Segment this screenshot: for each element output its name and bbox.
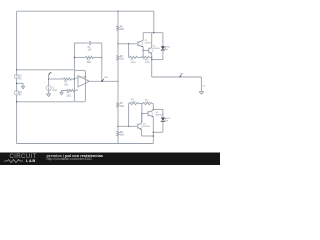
transistor Q2 — [149, 48, 154, 53]
svg-text:2N3904: 2N3904 — [143, 126, 151, 128]
LED D2 — [161, 118, 165, 121]
wire V1 to V2 — [16, 79, 18, 91]
wire feedback left vertical — [73, 43, 75, 70]
resistor R7 — [117, 103, 119, 108]
junction base wire bottom — [117, 126, 118, 127]
resistor R10 — [141, 56, 149, 58]
wire I1 to ground — [48, 91, 50, 94]
wire row lead left — [128, 56, 131, 58]
resistor R12 — [143, 103, 153, 105]
resistor R3 — [67, 89, 75, 91]
capacitor C1 — [89, 41, 90, 45]
node junction left-gnd — [16, 83, 17, 84]
wire ground stub horizontal — [17, 83, 23, 86]
svg-text:I1: I1 — [52, 87, 55, 89]
svg-text:1kΩ: 1kΩ — [120, 29, 124, 31]
svg-text:V1: V1 — [19, 76, 23, 78]
resistor R11 — [129, 103, 138, 105]
svg-text:5V: 5V — [19, 78, 22, 80]
svg-text:in: in — [50, 73, 53, 75]
node flag return net — [180, 74, 182, 77]
svg-text:1uF: 1uF — [88, 50, 93, 52]
svg-text:0V: 0V — [202, 85, 205, 87]
junction LED2 return — [153, 132, 154, 133]
wire return to ground run — [152, 76, 202, 78]
wire emitter return drop — [151, 60, 153, 77]
junction output feedback — [101, 81, 102, 82]
svg-text:V2: V2 — [19, 92, 23, 94]
voltage source V2 — [14, 91, 18, 95]
wire left rail lower — [16, 95, 18, 144]
wire Q2 collector — [151, 33, 153, 47]
svg-text:1kΩ: 1kΩ — [64, 84, 68, 86]
watermark bar — [0, 152, 220, 166]
junction left divider top — [128, 43, 129, 44]
svg-text:C1: C1 — [88, 47, 92, 49]
svg-text:2N3904: 2N3904 — [153, 48, 161, 50]
junction Q3 base — [141, 113, 142, 114]
svg-text:220Ω: 220Ω — [131, 62, 136, 64]
op-amp input pins — [74, 78, 78, 91]
voltage source V1 — [14, 74, 18, 78]
wire left rail upper — [16, 11, 18, 74]
node flag OUT — [102, 79, 104, 82]
svg-text:1kΩ: 1kΩ — [87, 62, 91, 64]
junction feedback left — [74, 57, 75, 58]
wire mid divider drop — [141, 104, 143, 123]
current source I1 — [46, 86, 51, 91]
node flag IN — [49, 72, 51, 75]
junction bias rail bottom — [117, 143, 118, 144]
wire LED1 return — [152, 59, 163, 61]
svg-text:220Ω: 220Ω — [145, 62, 150, 64]
wire Q2 base — [143, 49, 149, 51]
transistor Q1 — [138, 41, 143, 46]
resistor R5 — [117, 26, 119, 31]
LED D1 — [161, 46, 165, 49]
svg-text:1kΩ: 1kΩ — [120, 106, 124, 108]
svg-text:1mA: 1mA — [52, 89, 57, 92]
svg-text:5V: 5V — [19, 95, 22, 97]
resistor R2 — [86, 56, 94, 58]
wire supply drop — [153, 11, 155, 33]
wire left divider rise — [128, 104, 130, 127]
svg-text:R1: R1 — [64, 82, 68, 84]
wire R3 to ground — [61, 91, 63, 93]
junction base wire top — [117, 43, 118, 44]
svg-text:1kΩ: 1kΩ — [67, 95, 71, 97]
wire row2 lead right — [152, 103, 153, 105]
wire Q3 emitter drop — [152, 117, 154, 144]
svg-text:R7: R7 — [120, 103, 124, 105]
svg-text:vee: vee — [180, 73, 184, 75]
junction LED2 branch — [153, 109, 154, 110]
wire bias rail seg4 — [117, 107, 119, 131]
wire row2 lead left — [128, 103, 131, 105]
wire R3 branch — [62, 90, 67, 92]
junction left divider bottom — [128, 126, 129, 127]
wire top rail — [17, 10, 154, 12]
ground near V1/V2 — [21, 86, 25, 89]
junction inverting input — [74, 78, 75, 79]
ground below R3 — [60, 92, 64, 95]
wire Q3 collector rise — [152, 104, 154, 111]
wire bias rail seg5 — [117, 136, 119, 144]
svg-text:R2: R2 — [87, 59, 91, 61]
svg-text:1kΩ: 1kΩ — [120, 135, 124, 137]
svg-text:220Ω: 220Ω — [131, 102, 136, 104]
wire bias rail seg2 — [117, 31, 119, 56]
junction bias rail top — [117, 11, 118, 12]
wire Q4 base — [118, 125, 138, 127]
wire LED1 anode drop — [162, 33, 164, 46]
svg-text:2N3904: 2N3904 — [155, 115, 163, 117]
wire flag to source I1 — [48, 75, 50, 86]
wire A inverting feed — [17, 69, 75, 71]
junction input wire — [48, 78, 49, 79]
wire capacitor branch right — [91, 42, 102, 44]
svg-text:OA1: OA1 — [82, 76, 87, 79]
wire left divider drop — [128, 44, 130, 58]
transistor Q3 — [148, 111, 153, 116]
wire Q1 emitter drop — [142, 47, 144, 57]
wire R1 to opamp — [72, 78, 75, 80]
wire feedback right vertical — [101, 43, 103, 81]
wire R2 branch left — [74, 56, 85, 58]
wire common return to op-amp box — [17, 101, 75, 103]
op-amp U1 body box — [74, 70, 85, 102]
wire row lead right — [149, 56, 151, 58]
svg-text:R3: R3 — [67, 93, 71, 95]
logo resistor zigzag — [4, 160, 23, 163]
wire row lead mid — [137, 56, 141, 58]
junction output to rail — [117, 81, 118, 82]
junction rail common return — [16, 101, 17, 102]
wire Q4 collector rise — [141, 113, 143, 122]
wire collector rail top block — [143, 32, 163, 34]
op-amp U1 triangle — [78, 76, 89, 87]
wire return drop right — [200, 77, 202, 92]
wire Q1 base — [118, 43, 138, 45]
wire Q1 collector — [142, 33, 144, 41]
resistor R6 — [117, 55, 119, 60]
caption line 2 — [47, 158, 93, 162]
wire op-amp output — [89, 80, 118, 82]
wire LED2 anode drop — [162, 109, 164, 117]
wire Q4 emitter hook — [142, 135, 154, 137]
svg-text:out: out — [104, 76, 108, 79]
svg-text:220Ω: 220Ω — [145, 102, 150, 104]
ground below I1 — [46, 94, 50, 97]
junction Q2 base — [143, 50, 144, 51]
wire LED1 cathode drop — [162, 50, 164, 60]
resistor R8 — [117, 131, 119, 136]
wire Q4 emitter drop — [141, 130, 143, 136]
wire Q2 emitter drop — [151, 54, 153, 60]
junction hook — [153, 135, 154, 136]
wire LED2 cathode drop — [162, 121, 164, 132]
ground return — [199, 92, 204, 95]
wire bias rail seg3 — [117, 60, 119, 102]
wire capacitor branch left — [74, 42, 88, 44]
wire Q3 base — [142, 112, 148, 114]
node junction left-A — [16, 69, 17, 70]
transistor Q4 — [138, 124, 143, 129]
resistor R9 — [130, 56, 138, 58]
resistor R1 — [64, 78, 72, 80]
CircuitLab logo — [9, 154, 36, 160]
caption line 1 — [47, 154, 103, 158]
junction feedback right — [101, 57, 102, 58]
wire R2 branch right — [94, 56, 102, 58]
svg-text:R6: R6 — [120, 56, 124, 58]
wire LED2 return — [153, 131, 163, 133]
wire input to R1 — [49, 78, 64, 80]
wire LED2 branch — [153, 108, 163, 110]
junction supply drop — [153, 32, 154, 33]
svg-text:R5: R5 — [120, 26, 124, 28]
junction LED1 return — [151, 59, 152, 60]
svg-text:R8: R8 — [120, 132, 124, 134]
junction Q2 emitter row — [151, 57, 152, 58]
svg-text:1kΩ: 1kΩ — [120, 59, 124, 61]
wire row2 lead mid — [138, 103, 142, 105]
wire bias rail seg1 — [117, 11, 119, 26]
wire bottom rail — [17, 143, 154, 145]
